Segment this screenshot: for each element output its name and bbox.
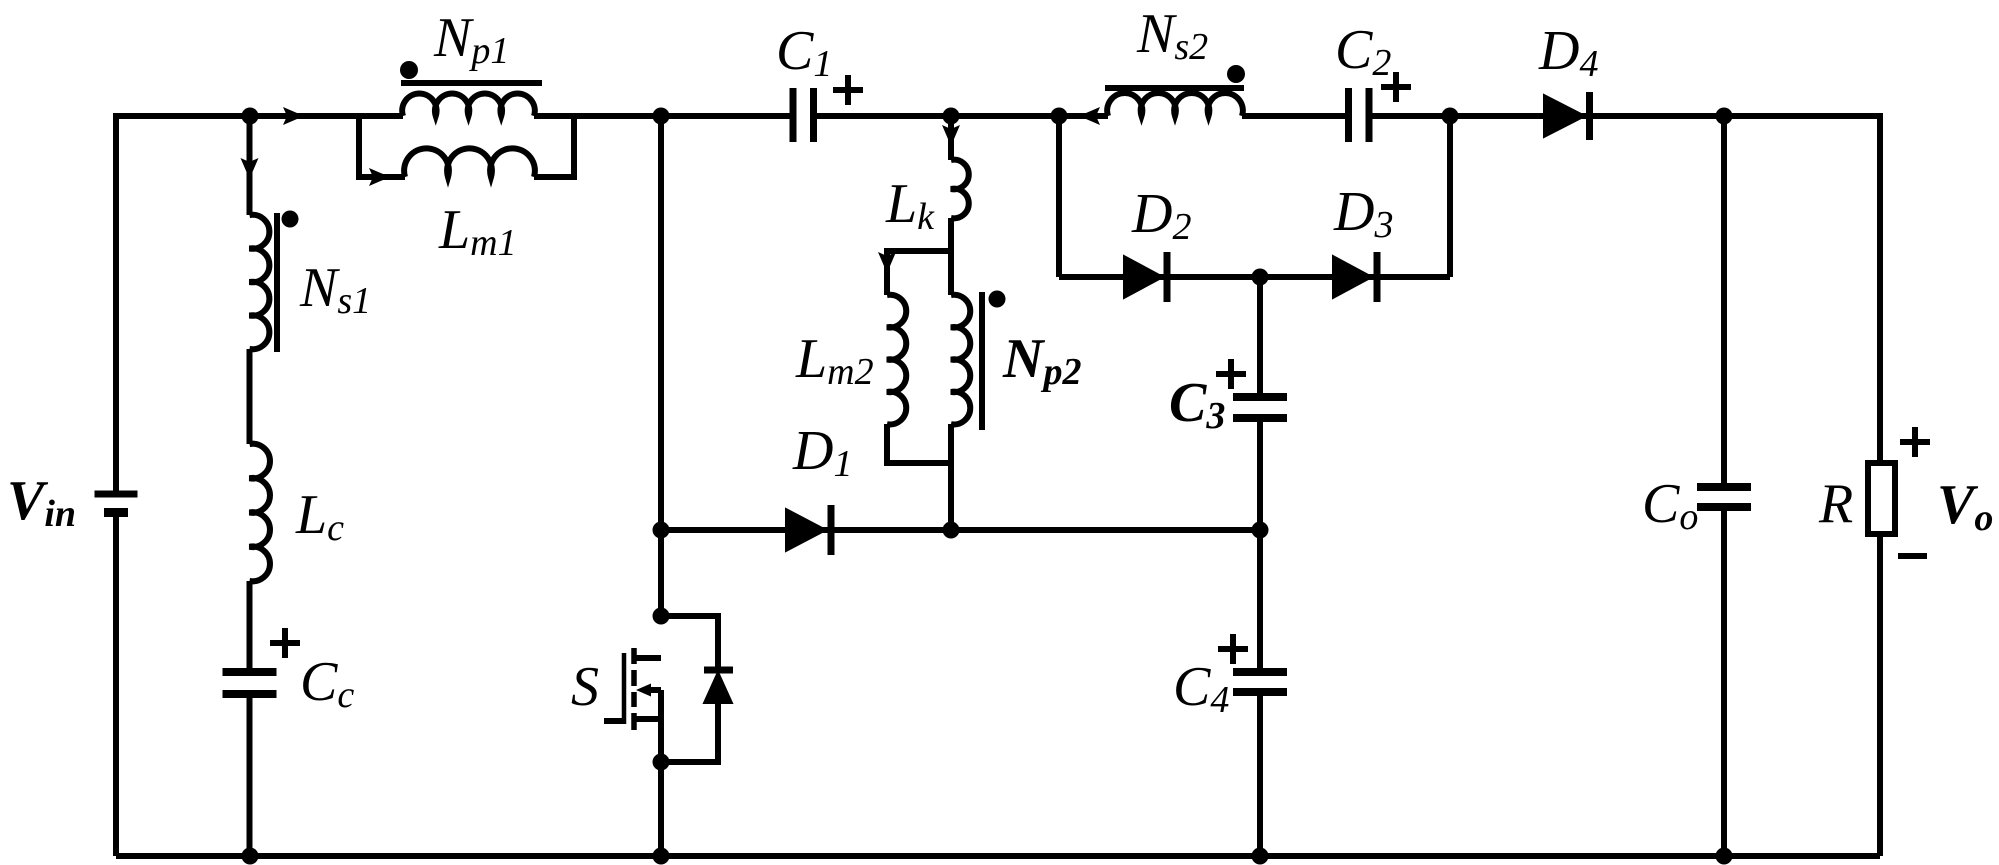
wire right of C2 to right rail down to R — [1372, 116, 1880, 463]
svg-text:S: S — [571, 656, 599, 718]
svg-text:Vin: Vin — [7, 470, 76, 535]
wire between Lk and Np2 — [948, 218, 954, 295]
junction node top wire x=661 — [653, 108, 670, 125]
svg-text:Co: Co — [1642, 473, 1698, 538]
svg-text:D2: D2 — [1131, 183, 1191, 248]
svg-text:Ns1: Ns1 — [299, 257, 371, 322]
wire Co branch above plates — [1721, 116, 1727, 487]
plus sign C1 — [833, 75, 863, 105]
junction node bottom x=661 — [653, 848, 670, 865]
MOSFET S body arrow lead — [636, 684, 661, 697]
wire body-diode loop bottom — [661, 703, 718, 762]
svg-text:Vo: Vo — [1937, 474, 1993, 539]
wire between Ns2 and C2 — [1242, 113, 1345, 119]
wire source vertical to bottom rail — [658, 690, 664, 856]
diode D2 — [1124, 252, 1167, 302]
wire middle branch x=661 top — [658, 116, 664, 616]
wire D2 D3 row — [1059, 274, 1450, 280]
body diode of switch S — [704, 670, 733, 703]
svg-text:C3: C3 — [1169, 372, 1225, 437]
plus sign C3 — [1216, 359, 1246, 389]
wire below Np2 to D1 row — [948, 424, 954, 530]
resistor R body — [1868, 463, 1895, 534]
junction node top wire x=1724 — [1716, 108, 1733, 125]
wire bottom rail — [116, 853, 1880, 859]
wire Lk branch top — [948, 116, 954, 160]
diode D3 — [1333, 252, 1377, 302]
wire Lm1 loop left and lead — [359, 116, 405, 177]
junction node bottom x=1260 — [1252, 848, 1269, 865]
svg-text:Np1: Np1 — [433, 7, 509, 72]
svg-text:Lm2: Lm2 — [795, 328, 874, 393]
current arrow into Ns1 (down) — [241, 158, 259, 179]
wire C4 branch below plates — [1257, 692, 1263, 856]
current arrow into Lm1 (right) — [369, 168, 390, 186]
junction node bottom x=1724 — [1716, 848, 1733, 865]
junction node D1 left — [653, 522, 670, 539]
wire Lm2 loop top — [887, 251, 951, 295]
junction node top wire x=1450 — [1442, 108, 1459, 125]
wire D3 right vertical — [1447, 116, 1453, 277]
svg-text:Ns2: Ns2 — [1136, 3, 1208, 68]
MOSFET S channel dashes — [631, 648, 637, 730]
diode D1 — [786, 505, 831, 555]
wire Ns1/Lc/Cc branch upper — [247, 116, 253, 215]
svg-text:C2: C2 — [1335, 19, 1391, 84]
minus sign Vo — [1898, 553, 1927, 559]
svg-text:R: R — [1818, 473, 1853, 535]
plus sign Vo — [1900, 427, 1930, 457]
diode D4 — [1544, 92, 1590, 140]
current arrow out of Ns2 (left) — [1079, 107, 1100, 125]
svg-text:Np2: Np2 — [1002, 328, 1081, 393]
wire D1 row — [661, 527, 1260, 533]
capacitor Cc plates — [223, 672, 277, 694]
inductor winding Lm2 — [887, 295, 906, 425]
current arrow into Lk (down) — [942, 125, 960, 146]
svg-text:Lk: Lk — [885, 173, 935, 238]
wire top middle segment — [534, 113, 790, 119]
wire left rail above battery and top rail to Np1 — [116, 116, 403, 494]
capacitor C4 plates — [1233, 672, 1287, 692]
svg-text:Lc: Lc — [295, 484, 344, 549]
wire left rail below battery — [113, 513, 119, 856]
current arrow on top wire (right) — [283, 107, 304, 125]
wire C4 branch above plates — [1257, 530, 1263, 672]
capacitor C1 plates — [793, 88, 814, 142]
junction node C3-C4 — [1252, 522, 1269, 539]
inductor winding Np1 — [402, 94, 535, 116]
wire between Ns1 and Lc — [247, 349, 253, 444]
inductor winding Ns2 — [1107, 93, 1243, 116]
junction node top wire x=250 — [242, 108, 259, 125]
MOSFET S gate bar — [622, 653, 627, 724]
wire C3 branch above plates — [1257, 277, 1263, 397]
MOSFET S gate lead — [604, 718, 624, 724]
battery Vin short plate — [104, 508, 128, 517]
polarity dot Np1 — [400, 61, 418, 79]
svg-text:D4: D4 — [1538, 20, 1598, 85]
junction node D1 right — [943, 522, 960, 539]
wire right rail below R — [1877, 534, 1883, 856]
inductor winding Lm1 — [404, 148, 535, 177]
current arrow into Lm2 (down) — [878, 252, 896, 273]
junction node bottom x=250 — [242, 848, 259, 865]
wire body-diode loop left/top — [661, 616, 718, 670]
MOSFET S drain lead — [636, 655, 661, 661]
polarity dot Np2 — [989, 291, 1006, 308]
plus sign Cc — [270, 628, 300, 658]
wire top right of C1 — [817, 113, 1108, 119]
transformer core bar Np2 — [979, 292, 985, 430]
junction node MOSFET drain — [653, 608, 670, 625]
inductor winding Ns1 — [250, 215, 270, 350]
capacitor C3 plates — [1233, 397, 1287, 418]
plus sign C4 — [1218, 634, 1248, 664]
svg-text:Cc: Cc — [300, 651, 354, 716]
wire D2 branch left vertical — [1056, 116, 1062, 277]
transformer core bar Ns2 — [1105, 85, 1244, 91]
capacitor C2 plates — [1349, 88, 1370, 142]
wire below Cc — [247, 694, 253, 856]
junction node D2-D3 — [1252, 269, 1269, 286]
MOSFET S source lead — [636, 716, 661, 722]
polarity dot Ns1 — [282, 211, 299, 228]
inductor winding Np2 — [951, 295, 970, 425]
inductor winding Lk — [951, 160, 969, 219]
plus sign C2 — [1381, 72, 1411, 102]
svg-text:D3: D3 — [1333, 181, 1393, 246]
junction node top wire x=1059 — [1051, 108, 1068, 125]
wire Co branch below plates — [1721, 507, 1727, 856]
svg-text:D1: D1 — [792, 420, 852, 485]
wire Lm2 loop bottom — [887, 424, 951, 463]
wire between Lc and Cc — [247, 581, 253, 672]
battery Vin long plate — [95, 491, 138, 498]
inductor winding Lc — [250, 444, 270, 582]
transformer core bar Np1 — [401, 80, 542, 86]
capacitor Co plates — [1697, 487, 1751, 507]
junction node MOSFET source — [653, 754, 670, 771]
svg-text:C4: C4 — [1173, 656, 1229, 721]
junction node top wire x=951 — [943, 108, 960, 125]
wire Lm1 loop right — [534, 116, 574, 177]
svg-text:C1: C1 — [776, 20, 832, 85]
transformer core bar Ns1 — [274, 213, 280, 352]
polarity dot Ns2 — [1227, 65, 1245, 83]
svg-text:Lm1: Lm1 — [438, 199, 517, 264]
wire C3 branch below plates — [1257, 418, 1263, 530]
